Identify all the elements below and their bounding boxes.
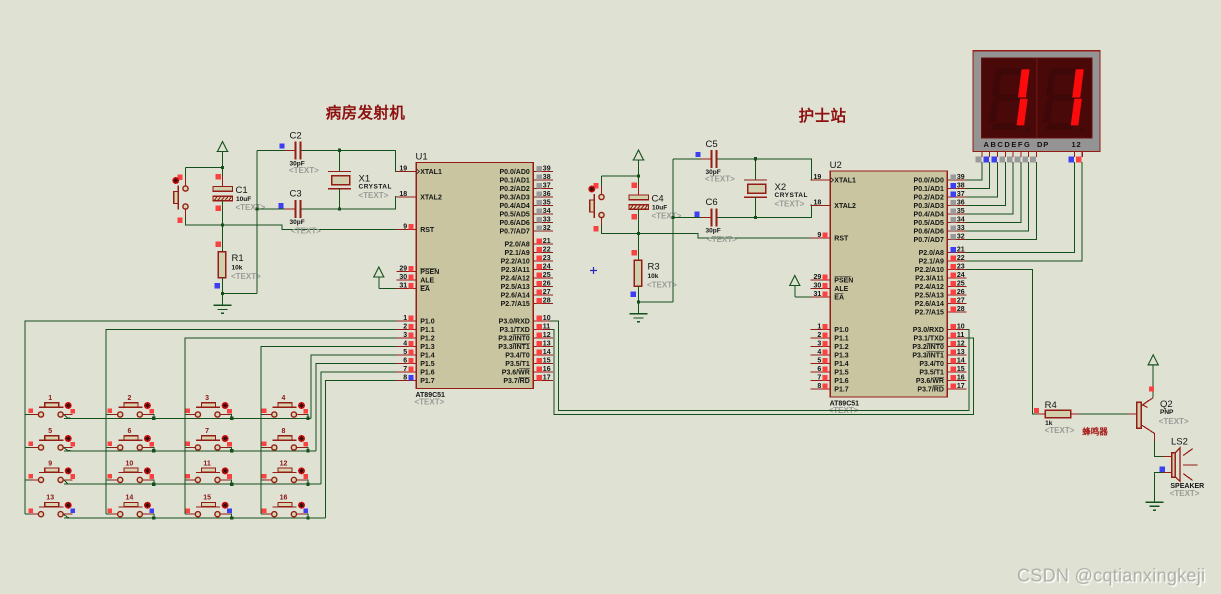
resistor R3 10k — [631, 250, 678, 297]
svg-text:ABCDEFG: ABCDEFG — [984, 140, 1032, 149]
svg-text:P0.0/AD0: P0.0/AD0 — [499, 169, 529, 176]
svg-text:病房发射机: 病房发射机 — [326, 103, 406, 122]
wire U2.P2.2 to R4 — [966, 270, 1037, 414]
push button 13 — [28, 495, 75, 517]
junction — [152, 483, 155, 486]
power symbol VCC (reset circuit) — [633, 150, 645, 195]
wire — [306, 480, 308, 484]
wire — [261, 479, 264, 481]
wire XTAL1 net — [756, 159, 812, 180]
svg-text:P0.4/AD4: P0.4/AD4 — [499, 203, 529, 210]
svg-text:P3.5/T1: P3.5/T1 — [505, 361, 530, 368]
svg-text:25: 25 — [957, 280, 965, 287]
svg-text:P1.4: P1.4 — [420, 353, 435, 360]
svg-text:7: 7 — [205, 428, 209, 435]
svg-text:<TEXT>: <TEXT> — [1170, 489, 1200, 498]
svg-text:P0.7/AD7: P0.7/AD7 — [499, 229, 529, 236]
svg-text:P1.6: P1.6 — [420, 370, 435, 377]
wire — [106, 513, 110, 515]
svg-text:U2: U2 — [830, 160, 842, 171]
junction — [152, 417, 155, 420]
svg-text:4: 4 — [403, 340, 407, 347]
svg-text:R3: R3 — [648, 262, 660, 273]
svg-text:12: 12 — [280, 460, 288, 467]
push button 3 — [185, 395, 232, 417]
svg-text:4: 4 — [282, 395, 286, 402]
junction — [671, 216, 674, 219]
svg-text:14: 14 — [957, 357, 965, 364]
push button 9 — [28, 460, 75, 482]
svg-text:8: 8 — [403, 374, 407, 381]
junction — [338, 149, 341, 152]
svg-text:11: 11 — [203, 460, 211, 467]
wire — [152, 480, 154, 484]
svg-text:P1.0: P1.0 — [420, 319, 435, 326]
svg-text:10: 10 — [957, 323, 965, 330]
svg-text:P1.5: P1.5 — [420, 361, 435, 368]
wire column 4 to U1 P1.3 — [261, 347, 397, 515]
svg-text:33: 33 — [543, 216, 551, 223]
svg-text:12: 12 — [957, 340, 965, 347]
push button 11 — [185, 460, 232, 482]
svg-text:14: 14 — [543, 349, 551, 356]
wire — [64, 480, 72, 484]
svg-text:10: 10 — [543, 315, 551, 322]
svg-text:<TEXT>: <TEXT> — [236, 203, 266, 212]
wire keypad row 1 — [64, 417, 311, 419]
wire ground net to cap vertical — [639, 301, 674, 303]
wire EA to U2 — [795, 296, 811, 298]
svg-text:18: 18 — [814, 199, 822, 206]
svg-text:P2.0/A8: P2.0/A8 — [505, 242, 530, 249]
ground (speaker) — [1145, 501, 1163, 503]
junction — [221, 292, 224, 295]
svg-text:P2.5/A13: P2.5/A13 — [915, 293, 944, 300]
svg-text:ALE: ALE — [420, 278, 434, 285]
svg-text:P2.3/A11: P2.3/A11 — [915, 276, 944, 283]
junction — [230, 449, 233, 452]
svg-text:9: 9 — [403, 223, 407, 230]
svg-text:P3.2/INT0: P3.2/INT0 — [498, 336, 530, 343]
svg-text:1: 1 — [48, 395, 52, 402]
svg-text:P2.2/A10: P2.2/A10 — [501, 259, 530, 266]
svg-text:P0.3/AD3: P0.3/AD3 — [499, 195, 529, 202]
push button 7 — [185, 428, 232, 450]
svg-text:5: 5 — [817, 357, 821, 364]
svg-text:P3.2/INT0: P3.2/INT0 — [912, 344, 944, 351]
svg-text:P2.1/A9: P2.1/A9 — [919, 259, 944, 266]
transistor Q2 PNP — [1128, 386, 1189, 441]
svg-text:2: 2 — [403, 323, 407, 330]
resistor R1 10k — [215, 242, 262, 289]
push button 6 — [108, 428, 155, 450]
svg-text:C3: C3 — [290, 189, 302, 200]
svg-text:5: 5 — [403, 349, 407, 356]
svg-text:P1.1: P1.1 — [834, 336, 849, 343]
svg-text:P3.3/INT1: P3.3/INT1 — [912, 353, 944, 360]
wire U1.P3.1 to U2.P3.1 — [551, 330, 974, 415]
svg-text:4: 4 — [817, 349, 821, 356]
wire cap ground vertical — [256, 150, 258, 293]
svg-text:P2.7/A15: P2.7/A15 — [501, 301, 530, 308]
svg-text:12: 12 — [1072, 140, 1082, 149]
svg-text:34: 34 — [957, 216, 965, 223]
svg-text:EA: EA — [834, 295, 844, 302]
wire R4 to Q2 base — [1079, 413, 1128, 415]
wire — [230, 480, 232, 484]
wire — [230, 415, 232, 419]
svg-text:<TEXT>: <TEXT> — [359, 191, 389, 200]
wire — [152, 448, 154, 451]
junction — [152, 449, 155, 452]
junction — [255, 207, 258, 210]
junction — [637, 174, 640, 177]
svg-text:26: 26 — [543, 280, 551, 287]
wire row 4 to U1 P1.7 — [326, 381, 397, 519]
svg-text:37: 37 — [957, 191, 965, 198]
svg-text:P0.3/AD3: P0.3/AD3 — [914, 203, 944, 210]
svg-text:PNP: PNP — [1160, 409, 1174, 416]
power symbol (U1 EA) — [373, 267, 385, 289]
svg-text:31: 31 — [399, 282, 407, 289]
svg-text:24: 24 — [543, 263, 551, 270]
capacitor C4 10uF — [629, 183, 682, 221]
wire button bottom to RST net — [602, 225, 811, 238]
svg-text:P3.7/RD: P3.7/RD — [503, 378, 529, 385]
svg-text:25: 25 — [543, 272, 551, 279]
svg-text:2: 2 — [127, 395, 131, 402]
wire C4 bottom to R3 top — [638, 209, 640, 260]
power symbol VCC (speaker driver) — [1147, 355, 1159, 398]
svg-text:1: 1 — [403, 315, 407, 322]
IC U2 AT89C51 body — [829, 160, 948, 415]
wire XTAL1 net — [340, 150, 397, 171]
svg-text:C6: C6 — [706, 197, 718, 208]
svg-text:<TEXT>: <TEXT> — [775, 200, 805, 209]
svg-text:19: 19 — [399, 165, 407, 172]
push button 8 — [262, 428, 309, 450]
svg-text:P1.7: P1.7 — [834, 387, 849, 394]
wire — [306, 415, 308, 419]
svg-text:32: 32 — [543, 225, 551, 232]
svg-text:P3.3/INT1: P3.3/INT1 — [498, 344, 530, 351]
svg-text:P1.7: P1.7 — [420, 378, 435, 385]
svg-text:P2.6/A14: P2.6/A14 — [501, 293, 530, 300]
svg-text:31: 31 — [814, 291, 822, 298]
svg-text:15: 15 — [543, 357, 551, 364]
svg-text:7: 7 — [817, 374, 821, 381]
svg-text:<TEXT>: <TEXT> — [652, 212, 682, 221]
svg-text:P2.0/A8: P2.0/A8 — [919, 250, 944, 257]
junction — [306, 516, 309, 519]
wire display segment A to U2.P0.0 — [966, 162, 982, 180]
svg-text:27: 27 — [957, 297, 965, 304]
svg-text:13: 13 — [543, 340, 551, 347]
svg-text:P2.2/A10: P2.2/A10 — [915, 267, 944, 274]
svg-text:P3.6/WR: P3.6/WR — [502, 370, 530, 377]
svg-text:17: 17 — [543, 374, 551, 381]
wire — [261, 414, 264, 416]
svg-text:EA: EA — [420, 286, 430, 293]
svg-text:33: 33 — [957, 225, 965, 232]
push button 14 — [108, 495, 155, 517]
svg-text:XTAL2: XTAL2 — [834, 203, 856, 210]
svg-text:C2: C2 — [290, 131, 302, 142]
wire display segment B to U2.P0.1 — [966, 162, 990, 189]
svg-text:8: 8 — [817, 383, 821, 390]
svg-text:24: 24 — [957, 272, 965, 279]
svg-text:P0.6/AD6: P0.6/AD6 — [499, 220, 529, 227]
wire column 3 to U1 P1.2 — [185, 338, 396, 514]
svg-text:P1.3: P1.3 — [420, 344, 435, 351]
junction — [152, 516, 155, 519]
push button 10 — [108, 460, 155, 482]
wire column 2 to U1 P1.1 — [106, 330, 397, 515]
svg-text:10k: 10k — [648, 273, 659, 280]
svg-text:27: 27 — [543, 289, 551, 296]
U1 right pins — [498, 165, 553, 385]
ground (reset circuit) — [630, 313, 648, 315]
origin marker (blue cross) — [590, 267, 597, 274]
wire — [106, 414, 110, 416]
wire — [25, 513, 31, 515]
U2 left pins — [811, 174, 857, 394]
svg-text:12: 12 — [543, 332, 551, 339]
svg-text:P0.2/AD2: P0.2/AD2 — [914, 195, 944, 202]
svg-text:34: 34 — [543, 208, 551, 215]
junction — [637, 300, 640, 303]
capacitor C3 30pF — [257, 189, 340, 236]
junction — [230, 516, 233, 519]
svg-text:<TEXT>: <TEXT> — [415, 398, 445, 407]
wire button top stub — [185, 168, 187, 178]
svg-text:PSEN: PSEN — [834, 278, 853, 285]
svg-text:P3.4/T0: P3.4/T0 — [505, 353, 530, 360]
power symbol VCC (reset circuit) — [217, 142, 229, 187]
svg-text:DP: DP — [1037, 140, 1049, 149]
power symbol (U2 EA) — [789, 276, 801, 298]
svg-text:32: 32 — [957, 233, 965, 240]
svg-text:17: 17 — [957, 383, 965, 390]
svg-text:P2.1/A9: P2.1/A9 — [505, 250, 530, 257]
svg-text:37: 37 — [543, 182, 551, 189]
svg-text:CRYSTAL: CRYSTAL — [359, 184, 392, 191]
svg-text:ALE: ALE — [834, 286, 848, 293]
svg-text:10: 10 — [126, 460, 134, 467]
resistor R4 1k — [1034, 400, 1079, 435]
wire C1 bottom to R1 top — [222, 200, 224, 251]
wire row 2 to U1 P1.5 — [316, 364, 397, 451]
svg-text:P0.5/AD5: P0.5/AD5 — [499, 212, 529, 219]
svg-text:C5: C5 — [706, 139, 718, 150]
push button 4 — [262, 395, 309, 417]
svg-text:13: 13 — [46, 495, 54, 502]
svg-text:11: 11 — [957, 332, 965, 339]
push button 12 — [262, 460, 309, 482]
svg-text:15: 15 — [957, 366, 965, 373]
wire — [306, 514, 308, 518]
speaker LS2 — [1160, 437, 1205, 499]
svg-text:P2.6/A14: P2.6/A14 — [915, 301, 944, 308]
svg-text:10uF: 10uF — [652, 205, 667, 212]
svg-text:P1.3: P1.3 — [834, 353, 849, 360]
svg-text:<TEXT>: <TEXT> — [705, 175, 735, 184]
svg-text:P3.1/TXD: P3.1/TXD — [499, 327, 529, 334]
wire LS2 to ground — [1155, 473, 1163, 503]
crystal X1 — [328, 150, 392, 209]
wire display digit 2 common to U2.P2.1 — [966, 162, 1082, 261]
svg-text:36: 36 — [957, 199, 965, 206]
wire — [64, 514, 72, 518]
svg-text:RST: RST — [420, 227, 435, 234]
svg-text:35: 35 — [543, 199, 551, 206]
svg-text:P2.3/A11: P2.3/A11 — [501, 267, 530, 274]
capacitor C2 30pF — [257, 131, 340, 176]
svg-text:CSDN @cqtianxingkeji: CSDN @cqtianxingkeji — [1017, 566, 1205, 586]
push button 15 — [185, 495, 232, 517]
svg-text:5: 5 — [48, 428, 52, 435]
wire — [185, 513, 188, 515]
svg-text:16: 16 — [957, 374, 965, 381]
svg-text:22: 22 — [543, 246, 551, 253]
wire keypad row 2 — [64, 450, 316, 452]
svg-text:护士站: 护士站 — [799, 106, 847, 125]
svg-text:P3.1/TXD: P3.1/TXD — [914, 336, 944, 343]
svg-text:蜂鸣器: 蜂鸣器 — [1082, 427, 1108, 437]
svg-text:P3.6/WR: P3.6/WR — [916, 378, 944, 385]
svg-text:P2.7/A15: P2.7/A15 — [915, 310, 944, 317]
wire row 1 to U1 P1.4 — [311, 355, 396, 418]
svg-text:18: 18 — [399, 191, 407, 198]
svg-text:P2.4/A12: P2.4/A12 — [501, 276, 530, 283]
display digit 1 segments — [989, 68, 1030, 132]
svg-text:23: 23 — [543, 255, 551, 262]
svg-text:38: 38 — [543, 174, 551, 181]
svg-text:P0.6/AD6: P0.6/AD6 — [914, 229, 944, 236]
svg-text:XTAL1: XTAL1 — [420, 169, 442, 176]
svg-text:<TEXT>: <TEXT> — [707, 235, 737, 244]
svg-text:XTAL1: XTAL1 — [834, 178, 856, 185]
junction — [306, 417, 309, 420]
svg-text:P3.0/RXD: P3.0/RXD — [499, 319, 530, 326]
U1 left pins — [397, 165, 442, 385]
junction — [637, 232, 640, 235]
wire — [25, 414, 31, 416]
svg-text:8: 8 — [282, 428, 286, 435]
svg-text:P1.2: P1.2 — [420, 336, 435, 343]
junction — [306, 449, 309, 452]
svg-text:35: 35 — [957, 208, 965, 215]
wire EA to U1 — [379, 288, 397, 290]
wire R1 bottom to ground — [222, 278, 224, 306]
wire display segment D to U2.P0.3 — [966, 162, 1005, 206]
svg-text:C1: C1 — [236, 185, 248, 196]
junction — [221, 166, 224, 169]
svg-text:P1.2: P1.2 — [834, 344, 849, 351]
wire cap ground vertical — [672, 159, 674, 302]
svg-text:<TEXT>: <TEXT> — [1159, 417, 1189, 426]
svg-text:9: 9 — [48, 460, 52, 467]
svg-text:<TEXT>: <TEXT> — [291, 227, 321, 236]
svg-text:R4: R4 — [1045, 400, 1057, 411]
wire power to button top — [602, 175, 639, 177]
svg-text:P2.5/A13: P2.5/A13 — [501, 284, 530, 291]
wire — [261, 447, 264, 449]
wire button top stub — [601, 176, 603, 186]
svg-text:R1: R1 — [232, 253, 244, 264]
svg-text:39: 39 — [957, 174, 965, 181]
svg-text:P3.4/T0: P3.4/T0 — [919, 361, 944, 368]
svg-text:16: 16 — [280, 495, 288, 502]
svg-text:9: 9 — [817, 232, 821, 239]
push button 1 — [28, 395, 75, 417]
svg-text:30pF: 30pF — [706, 228, 721, 235]
wire button bottom to RST net — [186, 217, 397, 230]
svg-text:15: 15 — [203, 495, 211, 502]
svg-text:RST: RST — [834, 236, 849, 243]
push button 5 — [28, 428, 75, 450]
svg-text:PSEN: PSEN — [420, 269, 439, 276]
wire — [64, 415, 72, 419]
svg-text:28: 28 — [543, 297, 551, 304]
wire display segment DP to U2.P0.7 — [966, 162, 1036, 240]
svg-text:28: 28 — [957, 306, 965, 313]
wire column 1 to U1 P1.0 — [25, 321, 397, 514]
wire — [306, 448, 308, 451]
svg-text:19: 19 — [814, 174, 822, 181]
svg-text:23: 23 — [957, 263, 965, 270]
ground (reset circuit) — [214, 304, 232, 306]
wire R3 bottom to ground — [638, 286, 640, 314]
wire display segment G to U2.P0.6 — [966, 162, 1029, 231]
wire Q2 collector to LS2 — [1155, 441, 1163, 456]
svg-text:2: 2 — [817, 332, 821, 339]
svg-text:P0.1/AD1: P0.1/AD1 — [499, 178, 529, 185]
svg-text:10uF: 10uF — [236, 196, 251, 203]
wire — [25, 447, 31, 449]
wire — [185, 447, 188, 449]
IC U1 AT89C51 body — [415, 152, 534, 407]
svg-text:P3.5/T1: P3.5/T1 — [919, 370, 944, 377]
push button (reset) — [588, 183, 604, 231]
svg-text:10k: 10k — [232, 265, 243, 272]
wire — [261, 513, 264, 515]
svg-text:30: 30 — [814, 282, 822, 289]
svg-text:30: 30 — [399, 274, 407, 281]
svg-text:P0.5/AD5: P0.5/AD5 — [914, 220, 944, 227]
push button 16 — [262, 495, 309, 517]
capacitor C6 30pF — [673, 197, 756, 244]
wire display segment C to U2.P0.2 — [966, 162, 998, 197]
junction — [754, 157, 757, 160]
7-segment display (2 digits, shows 11) — [973, 51, 1100, 152]
wire ground net to cap vertical — [223, 293, 258, 295]
svg-text:22: 22 — [957, 255, 965, 262]
junction — [230, 483, 233, 486]
capacitor C1 10uF — [213, 174, 266, 212]
wire row 3 to U1 P1.6 — [321, 372, 397, 484]
svg-text:<TEXT>: <TEXT> — [1045, 426, 1075, 435]
svg-text:1: 1 — [817, 323, 821, 330]
svg-text:29: 29 — [399, 265, 407, 272]
svg-text:C4: C4 — [652, 194, 664, 205]
svg-text:P0.1/AD1: P0.1/AD1 — [914, 186, 944, 193]
svg-text:U1: U1 — [416, 152, 428, 163]
svg-text:21: 21 — [543, 238, 551, 245]
svg-text:P1.0: P1.0 — [834, 327, 849, 334]
svg-text:30pF: 30pF — [290, 219, 305, 226]
wire U1.P3.0 to U2.P3.0 — [551, 321, 969, 410]
